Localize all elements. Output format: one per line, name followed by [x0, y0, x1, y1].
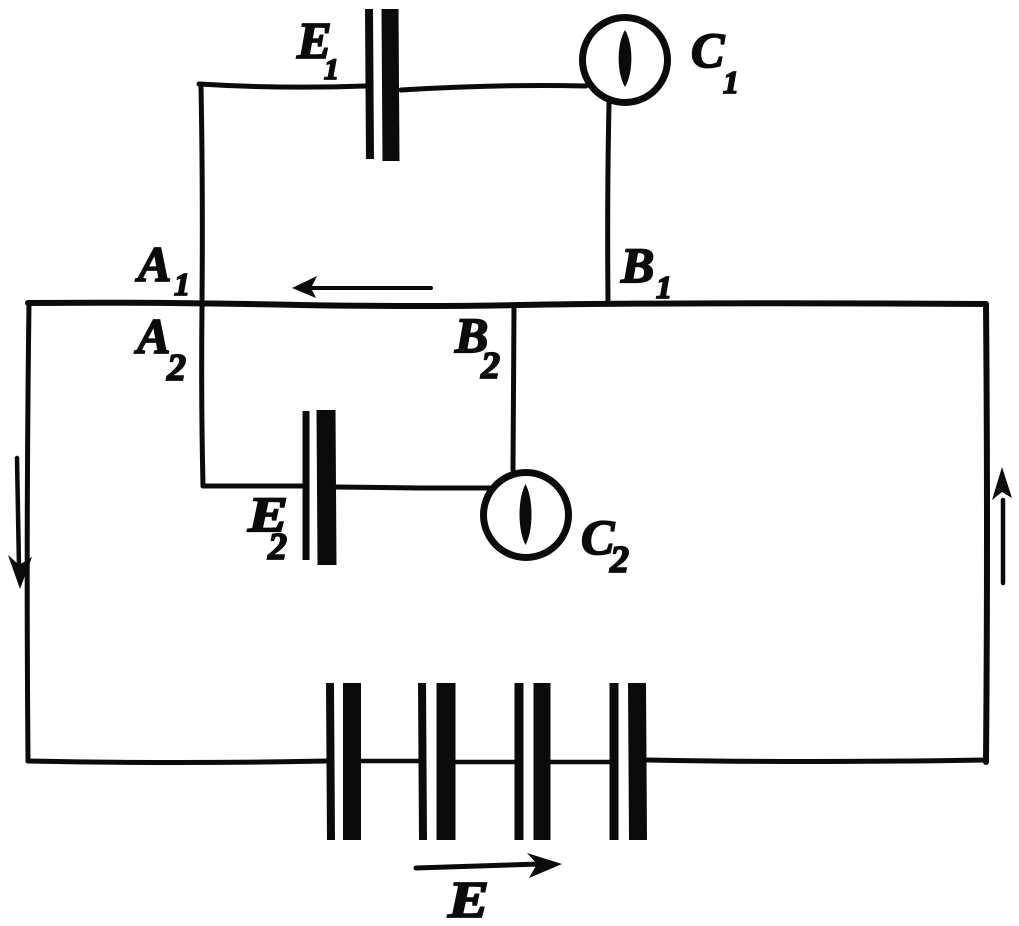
wire stub between cells 3-4 — [550, 760, 610, 765]
arrow left (current in bus) — [304, 286, 431, 290]
wire second loop horizontal left to cell E2 — [203, 484, 302, 489]
svg-text:A: A — [135, 236, 171, 292]
wire A2 down segment — [202, 306, 203, 486]
svg-text:1: 1 — [656, 269, 672, 305]
svg-text:B: B — [620, 237, 654, 293]
wire top horizontal right segment to galvanometer C1 — [401, 86, 586, 91]
svg-text:2: 2 — [609, 539, 629, 581]
cell E1 thick plate — [390, 9, 391, 161]
wire top-left vertical (A1 up to E1 loop) — [201, 86, 202, 302]
wire outer right vertical — [986, 305, 987, 762]
svg-text:E: E — [447, 872, 489, 926]
wire from E2 to galvanometer C2 — [336, 487, 490, 488]
wire stub between cells 1-2 — [361, 759, 419, 764]
cell E1 thin plate — [369, 9, 370, 159]
arrow down (left branch current) — [17, 458, 19, 567]
wire from C1 down to B1 — [608, 103, 609, 302]
svg-text:A: A — [134, 308, 170, 364]
arrow right (emf E direction) — [416, 864, 540, 868]
battery E cell 4 thick plate — [637, 683, 638, 840]
galvanometer C1 needle — [619, 30, 632, 87]
svg-text:2: 2 — [166, 347, 186, 389]
svg-text:1: 1 — [174, 266, 190, 302]
svg-text:2: 2 — [267, 526, 287, 568]
wire bottom left segment — [28, 761, 327, 763]
galvanometer C1 body — [583, 18, 668, 103]
wire stub between cells 2-3 — [456, 760, 514, 765]
galvanometer C2 needle — [520, 484, 532, 545]
battery E cell 3 thin plate — [515, 683, 524, 840]
battery E cell 2 thin plate — [422, 683, 423, 840]
cell E2 thin plate — [303, 411, 310, 560]
svg-text:1: 1 — [723, 64, 739, 100]
battery E cell 4 thin plate — [610, 683, 619, 840]
svg-text:2: 2 — [480, 345, 500, 387]
battery E cell 2 thick plate — [437, 683, 456, 840]
battery E cell 1 thin plate — [330, 683, 331, 840]
svg-text:C: C — [691, 22, 725, 78]
galvanometer C2 body — [484, 473, 569, 558]
battery E cell 3 thick plate — [534, 683, 551, 840]
svg-text:1: 1 — [324, 53, 339, 86]
cell E2 thick plate — [326, 410, 327, 565]
wire bottom right segment — [647, 760, 986, 762]
battery E cell 1 thick plate — [343, 683, 361, 840]
wire outer left vertical — [27, 303, 29, 761]
wire main horizontal bus — [28, 303, 986, 306]
wire B2 vertical from bus to C2 — [513, 308, 514, 470]
wire top horizontal left segment to cell E1 — [199, 84, 366, 87]
arrow up (right branch current) — [1001, 500, 1006, 583]
